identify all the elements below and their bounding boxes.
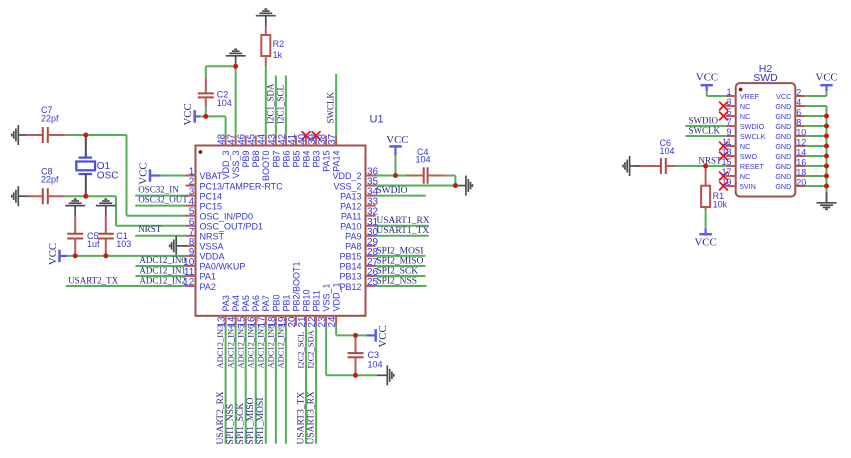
svg-text:OSC: OSC	[97, 170, 119, 181]
svg-text:VCC: VCC	[138, 162, 150, 184]
svg-text:SWCLK: SWCLK	[689, 126, 721, 136]
svg-text:6: 6	[796, 108, 801, 118]
svg-text:NC: NC	[740, 102, 750, 111]
svg-text:PC15: PC15	[200, 201, 223, 211]
svg-text:VBAT: VBAT	[200, 171, 223, 181]
svg-text:PA9: PA9	[345, 232, 361, 242]
svg-text:PA4: PA4	[231, 295, 241, 311]
svg-text:VDDA: VDDA	[200, 252, 225, 262]
svg-text:9: 9	[726, 127, 731, 137]
svg-text:PA7: PA7	[261, 295, 271, 311]
svg-text:SPI2_NSS: SPI2_NSS	[376, 276, 417, 286]
svg-text:PC14: PC14	[200, 191, 223, 201]
svg-text:PA13: PA13	[340, 191, 361, 201]
svg-text:I2C2_SCL: I2C2_SCL	[296, 332, 306, 369]
svg-text:22pf: 22pf	[41, 174, 59, 184]
svg-text:PA8: PA8	[345, 242, 361, 252]
svg-text:ADC12_IN3: ADC12_IN3	[215, 325, 225, 369]
svg-text:GND: GND	[775, 152, 791, 161]
svg-text:VSS_3: VSS_3	[231, 151, 241, 179]
svg-text:SPI1_MISO: SPI1_MISO	[246, 397, 256, 444]
svg-text:11: 11	[722, 137, 731, 147]
svg-text:104: 104	[660, 146, 675, 156]
svg-text:ADC12_IN6: ADC12_IN6	[245, 325, 255, 369]
svg-text:GND: GND	[775, 122, 791, 131]
svg-text:VSSA: VSSA	[200, 242, 224, 252]
svg-text:GND: GND	[775, 112, 791, 121]
svg-text:NC: NC	[740, 112, 750, 121]
svg-text:USART3_RX: USART3_RX	[306, 391, 316, 444]
svg-text:PB13: PB13	[339, 272, 361, 282]
svg-text:ADC12_IN2: ADC12_IN2	[139, 275, 186, 285]
svg-text:PA5: PA5	[241, 295, 251, 311]
svg-text:PB7: PB7	[271, 151, 281, 168]
svg-text:USART2_TX: USART2_TX	[68, 275, 118, 285]
svg-text:OSC_OUT/PD1: OSC_OUT/PD1	[200, 221, 264, 231]
svg-text:14: 14	[796, 148, 806, 158]
svg-text:USART2_RX: USART2_RX	[216, 391, 226, 444]
svg-text:103: 103	[116, 239, 131, 249]
svg-text:I2C1_SDA: I2C1_SDA	[265, 83, 275, 124]
svg-text:SWDIO: SWDIO	[376, 186, 407, 196]
svg-text:15: 15	[721, 157, 731, 167]
svg-text:PB1: PB1	[281, 294, 291, 311]
svg-text:VREF: VREF	[740, 92, 760, 101]
svg-text:19: 19	[721, 177, 731, 187]
svg-text:20: 20	[796, 178, 806, 188]
svg-text:I2C1_SCL: I2C1_SCL	[275, 85, 285, 124]
svg-text:VCC: VCC	[776, 92, 791, 101]
svg-text:1uf: 1uf	[87, 239, 100, 249]
svg-text:ADC12_IN9: ADC12_IN9	[276, 325, 286, 369]
svg-text:USART1_RX: USART1_RX	[376, 216, 429, 226]
svg-text:VCC: VCC	[386, 134, 408, 146]
svg-text:OSC32_IN: OSC32_IN	[138, 184, 179, 194]
svg-text:104: 104	[416, 155, 431, 165]
svg-text:104: 104	[217, 98, 232, 108]
svg-text:PA0/WKUP: PA0/WKUP	[200, 262, 246, 272]
svg-text:PB12: PB12	[339, 282, 361, 292]
svg-text:PB5: PB5	[291, 151, 301, 168]
svg-text:37: 37	[327, 134, 338, 145]
svg-text:5: 5	[726, 107, 731, 117]
svg-text:ADC12_IN4: ADC12_IN4	[225, 324, 235, 369]
svg-text:SWCLK: SWCLK	[326, 91, 336, 123]
svg-text:NC: NC	[740, 172, 750, 181]
svg-text:VDD_1: VDD_1	[332, 282, 342, 311]
svg-text:R2: R2	[273, 39, 285, 49]
svg-text:I2C2_SDA: I2C2_SDA	[306, 329, 316, 368]
svg-text:U1: U1	[370, 114, 384, 126]
svg-text:VCC: VCC	[815, 72, 837, 84]
svg-text:22pf: 22pf	[41, 114, 59, 124]
svg-text:SPI2_MOSI: SPI2_MOSI	[376, 246, 423, 256]
svg-text:PB10: PB10	[301, 289, 311, 311]
svg-text:PA2: PA2	[200, 282, 216, 292]
svg-text:16: 16	[796, 158, 806, 168]
svg-text:NRST: NRST	[138, 224, 162, 234]
svg-text:PB6: PB6	[281, 151, 291, 168]
svg-text:SPI1_NSS: SPI1_NSS	[226, 404, 236, 445]
svg-text:PA11: PA11	[341, 211, 362, 221]
svg-text:104: 104	[368, 359, 383, 369]
svg-text:PB4: PB4	[301, 151, 311, 168]
svg-text:SWCLK: SWCLK	[740, 132, 766, 141]
svg-text:GND: GND	[775, 142, 791, 151]
svg-text:PA14: PA14	[332, 151, 342, 172]
svg-text:1k: 1k	[273, 50, 283, 60]
svg-text:VCC: VCC	[377, 325, 389, 347]
svg-text:SPI1_SCK: SPI1_SCK	[236, 403, 246, 445]
svg-text:PB8: PB8	[251, 151, 261, 168]
svg-text:10k: 10k	[713, 200, 728, 210]
svg-text:BOOT0: BOOT0	[261, 151, 271, 182]
svg-text:OSC32_OUT: OSC32_OUT	[138, 194, 188, 204]
svg-text:ADC12_IN0: ADC12_IN0	[139, 255, 186, 265]
svg-text:VCC: VCC	[694, 237, 716, 249]
svg-text:SWDIO: SWDIO	[740, 122, 765, 131]
svg-text:NRST: NRST	[699, 155, 723, 165]
svg-text:NC: NC	[740, 142, 750, 151]
svg-text:VCC: VCC	[47, 243, 59, 265]
svg-text:VCC: VCC	[182, 103, 194, 125]
svg-text:PA3: PA3	[221, 295, 231, 311]
svg-text:18: 18	[796, 168, 806, 178]
svg-text:GND: GND	[775, 182, 791, 191]
svg-text:NRST: NRST	[200, 232, 225, 242]
svg-text:USART1_TX: USART1_TX	[376, 226, 429, 236]
svg-text:4: 4	[796, 98, 801, 108]
svg-text:GND: GND	[775, 172, 791, 181]
svg-text:PB0: PB0	[271, 294, 281, 311]
svg-text:PA12: PA12	[340, 201, 361, 211]
svg-text:8: 8	[796, 118, 801, 128]
svg-text:SWDIO: SWDIO	[689, 116, 719, 126]
svg-text:24: 24	[327, 316, 338, 327]
svg-text:SWO: SWO	[740, 152, 758, 161]
svg-text:ADC12_IN8: ADC12_IN8	[265, 325, 275, 369]
svg-text:GND: GND	[775, 162, 791, 171]
svg-text:PC13/TAMPER-RTC: PC13/TAMPER-RTC	[200, 181, 284, 191]
svg-text:12: 12	[796, 138, 806, 148]
svg-text:SPI2_MISO: SPI2_MISO	[376, 256, 423, 266]
svg-text:5VIN: 5VIN	[740, 182, 756, 191]
svg-text:PB14: PB14	[339, 262, 361, 272]
svg-text:3: 3	[726, 97, 731, 107]
svg-text:GND: GND	[775, 102, 791, 111]
svg-text:13: 13	[721, 147, 731, 157]
svg-text:PA15: PA15	[322, 151, 332, 172]
svg-text:OSC_IN/PD0: OSC_IN/PD0	[200, 211, 254, 221]
svg-text:PB11: PB11	[311, 290, 321, 311]
svg-text:VCC: VCC	[696, 72, 718, 84]
svg-text:SWD: SWD	[753, 72, 778, 84]
svg-text:VSS_2: VSS_2	[333, 181, 361, 191]
svg-text:SPI1_MOSI: SPI1_MOSI	[256, 398, 266, 445]
svg-text:GND: GND	[775, 132, 791, 141]
svg-text:2: 2	[796, 88, 801, 98]
svg-text:USART3_TX: USART3_TX	[296, 392, 306, 445]
svg-text:ADC12_IN5: ADC12_IN5	[235, 325, 245, 369]
svg-text:17: 17	[721, 167, 731, 177]
svg-text:ADC12_IN1: ADC12_IN1	[139, 265, 186, 275]
svg-text:PA10: PA10	[340, 221, 361, 231]
svg-text:ADC12_IN7: ADC12_IN7	[255, 325, 265, 369]
svg-text:PA1: PA1	[200, 272, 216, 282]
svg-text:10: 10	[796, 128, 806, 138]
svg-text:1: 1	[726, 87, 731, 97]
svg-text:VSS_1: VSS_1	[322, 283, 332, 311]
svg-text:7: 7	[726, 117, 731, 127]
svg-text:PB9: PB9	[241, 151, 251, 168]
svg-text:RESET: RESET	[740, 162, 765, 171]
svg-text:PB2/BOOT1: PB2/BOOT1	[291, 261, 301, 311]
svg-text:SPI2_SCK: SPI2_SCK	[376, 266, 418, 276]
svg-text:VDD_3: VDD_3	[221, 151, 231, 180]
svg-text:PA6: PA6	[251, 295, 261, 311]
svg-text:PB3: PB3	[311, 151, 321, 168]
svg-text:PB15: PB15	[339, 252, 361, 262]
